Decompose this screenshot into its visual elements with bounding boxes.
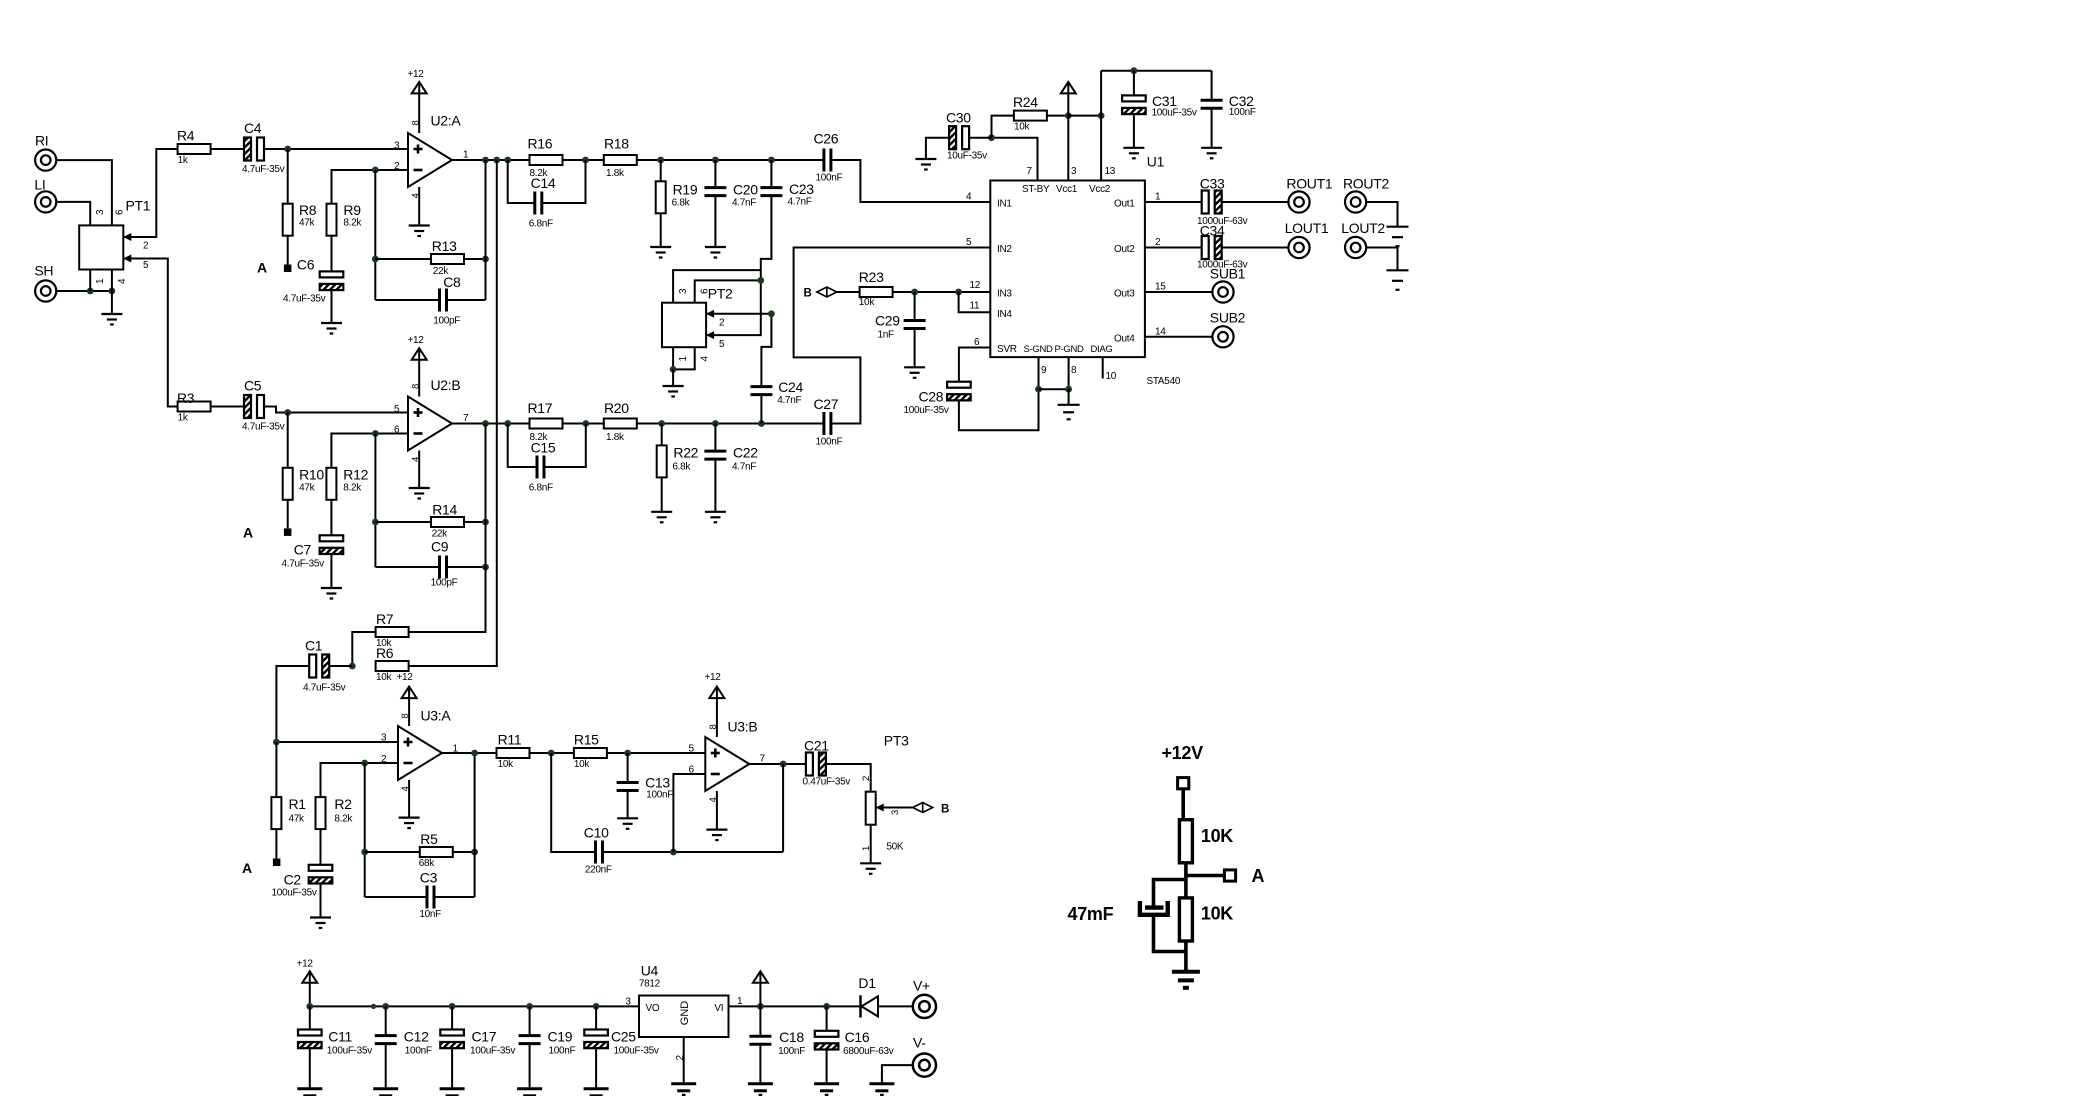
svg-text:C9: C9 [431, 539, 449, 555]
wire R22 top lead [661, 424, 663, 446]
wire R22 to ground [661, 477, 663, 511]
ground below C22 [705, 512, 726, 523]
wire C32 to ground [1211, 108, 1213, 147]
power +12 at U1 [1061, 82, 1076, 181]
svg-text:A: A [242, 860, 252, 876]
resistor R11 [497, 732, 530, 771]
wire U3:A output [442, 752, 497, 754]
wire C18 to ground [759, 1044, 761, 1084]
svg-text:1k: 1k [178, 155, 189, 166]
node B-channel input junction [284, 409, 291, 416]
wire SH to PT1 pins 1,4 [56, 290, 112, 292]
wire S-GND stem [1038, 357, 1040, 389]
svg-text:ROUT2: ROUT2 [1343, 176, 1389, 192]
wire C2 to ground [320, 884, 322, 917]
svg-text:C4: C4 [244, 120, 262, 136]
svg-text:A: A [1252, 866, 1265, 886]
svg-text:9: 9 [1041, 365, 1047, 376]
svg-text:R11: R11 [498, 732, 522, 748]
wire C17 to ground [451, 1048, 453, 1088]
svg-text:R5: R5 [420, 831, 438, 847]
wire IN4 jog [959, 292, 991, 312]
resistor R12 [326, 466, 368, 500]
svg-text:12: 12 [970, 280, 981, 291]
wire C5 to U2:B +input [264, 407, 408, 413]
svg-text:8.2k: 8.2k [343, 218, 362, 229]
svg-text:1.8k: 1.8k [606, 432, 625, 443]
node U3:B -in loop junction [670, 849, 677, 856]
svg-text:C1: C1 [305, 638, 323, 654]
wire 10K to node A [1186, 863, 1225, 898]
svg-text:R18: R18 [604, 136, 629, 152]
resistor R19 [656, 181, 698, 213]
wire C30 to ground [926, 138, 949, 159]
svg-text:A: A [243, 525, 253, 541]
wire PT1 pin1 stem [90, 270, 106, 292]
svg-text:100uF-35v: 100uF-35v [327, 1046, 372, 1057]
wire R7 left to C1 node [352, 632, 375, 666]
capacitor C24 [750, 379, 803, 406]
svg-text:C23: C23 [789, 181, 814, 197]
op-amp U2:B [394, 377, 469, 462]
node S-GND junction [1035, 386, 1042, 393]
wire U2:B output [452, 423, 530, 425]
power +12 at U3:B [705, 672, 725, 737]
svg-text:R1: R1 [289, 796, 307, 812]
svg-text:10K: 10K [1201, 826, 1233, 846]
svg-text:1k: 1k [178, 413, 189, 424]
ground below C32 [1201, 148, 1222, 159]
svg-text:RI: RI [35, 133, 48, 149]
wire C11 to ground [309, 1048, 311, 1088]
wire R3 to C5 [211, 406, 245, 408]
svg-text:100nF: 100nF [816, 437, 843, 448]
wire R9 to U2:A -input [332, 170, 409, 204]
wire Vcc1 to Vcc2 rail [1068, 115, 1101, 117]
svg-text:5: 5 [394, 404, 400, 415]
node U2:A out junction 1 [482, 157, 489, 164]
node U3:A out junction [471, 750, 478, 757]
svg-text:PT1: PT1 [126, 197, 151, 213]
svg-text:0.47uF-35v: 0.47uF-35v [803, 777, 851, 788]
ground below C13 [617, 818, 638, 829]
ground below P-GND [1058, 405, 1080, 420]
capacitor C22 [704, 445, 758, 473]
node PT2 pin2 junction [768, 310, 775, 317]
svg-text:14: 14 [1155, 326, 1166, 337]
wire C3 right lead [434, 896, 475, 898]
svg-text:IN1: IN1 [997, 199, 1012, 210]
svg-text:10k: 10k [498, 759, 515, 770]
svg-text:+12V: +12V [1162, 743, 1204, 763]
wire C29 top lead [914, 292, 916, 321]
connector V+ [913, 978, 936, 1019]
svg-text:PT3: PT3 [884, 733, 909, 749]
wire C19 to ground [529, 1043, 531, 1088]
capacitor C33 [1197, 176, 1248, 228]
svg-text:C14: C14 [531, 175, 556, 191]
resistor R10 [283, 466, 325, 500]
capacitor C11 [298, 1029, 372, 1057]
svg-text:3: 3 [890, 810, 901, 815]
svg-text:C7: C7 [294, 542, 312, 558]
wire R15 to U3:B +input [607, 752, 705, 754]
wire R6 right to U2:A out [409, 160, 497, 666]
potentiometer PT2 [662, 286, 733, 362]
svg-text:+12: +12 [408, 335, 425, 346]
node C9 right junction [482, 564, 489, 571]
net B marker at R23 [804, 287, 837, 300]
node C22 junction [712, 420, 719, 427]
svg-text:3: 3 [678, 288, 689, 294]
wire PT1 pin2 to R4 [123, 149, 177, 252]
wire V- to ground [882, 1065, 913, 1083]
ground below C16 [814, 1084, 839, 1096]
wire R1 to node A [275, 829, 277, 858]
svg-text:C17: C17 [472, 1029, 497, 1045]
wire PT2 pin1 stem [672, 347, 674, 369]
ground at LOUT2 [1387, 270, 1409, 290]
svg-text:6.8k: 6.8k [672, 198, 691, 209]
svg-text:GND: GND [679, 1001, 691, 1026]
wire C25 to ground [595, 1048, 597, 1088]
ground below C18 [748, 1084, 773, 1096]
wire C18 top lead [759, 1006, 761, 1036]
svg-text:6: 6 [700, 288, 711, 294]
wire PT3 bottom to ground [861, 825, 872, 863]
wire R12 to C7 [330, 500, 332, 536]
svg-text:1.8k: 1.8k [606, 168, 625, 179]
wire PT2 pin5 arrow [706, 331, 725, 350]
node Vcc1 junction [1065, 112, 1072, 119]
svg-text:10: 10 [1106, 371, 1117, 382]
svg-text:8.2k: 8.2k [334, 814, 353, 825]
svg-text:C5: C5 [244, 378, 262, 394]
capacitor C10 [584, 825, 612, 876]
svg-text:6: 6 [974, 337, 980, 348]
wire PT2 pin2 [706, 310, 771, 329]
svg-text:U2:A: U2:A [431, 113, 462, 129]
capacitor C28 [904, 382, 971, 416]
wire C22 to ground [714, 459, 716, 511]
svg-text:C33: C33 [1200, 176, 1225, 192]
ground below C11 [297, 1089, 322, 1096]
node +12/C11 junction [306, 1003, 313, 1010]
resistor R5 [419, 831, 453, 869]
wire feedback vertical left [374, 170, 376, 300]
svg-text:R17: R17 [528, 400, 553, 416]
wire junction to R8 [287, 149, 289, 204]
wire C10 loop left [551, 753, 595, 852]
svg-text:B: B [941, 804, 949, 816]
svg-text:SVR: SVR [997, 344, 1017, 355]
svg-text:4: 4 [117, 278, 128, 284]
capacitor C15 [529, 440, 556, 494]
ground U3:B pin4 [706, 791, 727, 840]
capacitor C1 [303, 638, 346, 694]
resistor R3 [177, 390, 211, 424]
svg-text:R12: R12 [343, 466, 368, 482]
svg-text:C30: C30 [946, 110, 971, 126]
ground below PT2 [663, 386, 684, 397]
wire C33 to ROUT1 [1222, 201, 1289, 203]
svg-text:Out2: Out2 [1114, 244, 1135, 255]
capacitor C7 [282, 535, 344, 569]
svg-text:2: 2 [143, 241, 149, 252]
wire Out2 to C34 [1145, 247, 1202, 249]
wire DIAG stub [1102, 357, 1104, 378]
svg-text:C24: C24 [778, 379, 803, 395]
ground below PT1 [101, 291, 122, 325]
wire R4 to C4 [211, 148, 245, 150]
svg-text:100uF-35v: 100uF-35v [614, 1046, 659, 1057]
connector LOUT1 [1285, 220, 1329, 258]
node PT2 pin6 junction [757, 277, 764, 284]
connector V- [913, 1035, 936, 1077]
wire C12 to ground [385, 1043, 387, 1088]
ground below C31 [1123, 148, 1144, 159]
svg-text:100uF-35v: 100uF-35v [904, 405, 949, 416]
svg-text:1: 1 [1155, 192, 1161, 203]
resistor 10K upper [1179, 820, 1233, 863]
svg-text:100nF: 100nF [405, 1046, 432, 1057]
power +12 at U3:A [397, 672, 417, 726]
wire 47mF to ground rail [1154, 915, 1186, 952]
wire C8 left lead [375, 299, 439, 301]
svg-text:U1: U1 [1147, 154, 1165, 170]
wire R18 to C26 [637, 159, 824, 161]
wire C8 right lead [447, 299, 486, 301]
wire SVR to C28 [959, 348, 990, 382]
svg-text:6.8nF: 6.8nF [529, 219, 553, 230]
svg-text:5: 5 [143, 260, 149, 271]
node C16 junction [823, 1003, 830, 1010]
svg-text:LOUT2: LOUT2 [1341, 220, 1385, 236]
svg-text:1nF: 1nF [878, 330, 895, 341]
svg-text:C6: C6 [297, 257, 315, 273]
wire R5 right lead [453, 851, 475, 853]
svg-text:PT2: PT2 [708, 286, 733, 302]
wire P-GND to ground [1068, 389, 1070, 404]
svg-text:5: 5 [689, 744, 695, 755]
svg-text:220nF: 220nF [585, 865, 612, 876]
capacitor C8 [433, 274, 461, 327]
svg-text:4.7nF: 4.7nF [732, 198, 756, 209]
node U2:A feedback junction [372, 167, 379, 174]
svg-text:6: 6 [689, 765, 695, 776]
op-amp U3:A [381, 708, 459, 792]
node U2:A out junction 2 [493, 157, 500, 164]
node R13 right junction [482, 256, 489, 263]
terminal pad A [1224, 866, 1264, 886]
svg-text:5: 5 [966, 237, 972, 248]
resistor R13 [431, 238, 464, 277]
svg-text:15: 15 [1155, 282, 1166, 293]
svg-text:LI: LI [34, 177, 45, 193]
svg-text:C11: C11 [328, 1029, 352, 1045]
svg-text:2: 2 [861, 776, 872, 781]
capacitor C18 [749, 1029, 805, 1057]
wire PT2 pin3 [673, 270, 761, 303]
svg-text:100nF: 100nF [778, 1046, 805, 1057]
wire R13 left lead [375, 258, 431, 260]
svg-text:R13: R13 [432, 238, 457, 254]
ground below C6 [321, 323, 342, 334]
capacitor C23 [760, 181, 814, 208]
svg-text:100nF: 100nF [816, 173, 843, 184]
svg-text:U4: U4 [641, 963, 659, 979]
svg-text:R8: R8 [299, 202, 317, 218]
node A marker (channel B bias) [243, 525, 291, 541]
wire R24 left lead [992, 116, 1014, 138]
wire C9 right lead [447, 566, 486, 568]
wire feedback vertical left B [374, 434, 376, 568]
wire Out1 to C33 [1145, 201, 1202, 203]
wire C13 to ground [627, 791, 629, 819]
connector ROUT2 [1343, 176, 1389, 213]
svg-text:4.7uF-35v: 4.7uF-35v [242, 164, 285, 175]
svg-text:V-: V- [913, 1035, 926, 1051]
capacitor C25 [584, 1029, 659, 1057]
wire R8 to node A [287, 236, 289, 265]
wire C15 left loop [508, 424, 537, 468]
svg-text:DIAG: DIAG [1091, 344, 1113, 355]
node C31 junction [1131, 67, 1138, 74]
svg-text:U3:A: U3:A [421, 708, 452, 724]
wire PT1 pin4 stem [112, 270, 128, 292]
svg-text:ROUT1: ROUT1 [1286, 176, 1332, 192]
wire R24 right lead [1047, 115, 1068, 117]
svg-text:2: 2 [394, 161, 400, 172]
svg-text:U3:B: U3:B [728, 719, 758, 735]
svg-text:R7: R7 [376, 611, 394, 627]
capacitor C29 [875, 313, 926, 341]
svg-text:8: 8 [1071, 365, 1077, 376]
svg-text:4: 4 [966, 192, 972, 203]
svg-text:C3: C3 [420, 870, 438, 886]
wire U3:B out to C10 rail [782, 764, 784, 852]
resistor R23 [859, 269, 893, 308]
capacitor C21 [803, 738, 851, 788]
connector ROUT1 [1286, 176, 1332, 213]
svg-text:C18: C18 [779, 1029, 804, 1045]
capacitor C9 [431, 539, 458, 589]
svg-text:R24: R24 [1013, 94, 1038, 110]
svg-text:ST-BY: ST-BY [1022, 184, 1050, 195]
node U2:B feedback junction [372, 430, 379, 437]
capacitor C26 [814, 131, 843, 184]
ground below C20 [705, 247, 726, 258]
wire LOUT2 to ground [1366, 248, 1397, 271]
svg-text:6.8k: 6.8k [672, 462, 691, 473]
capacitor C14 [529, 175, 556, 230]
capacitor 47mF [1068, 901, 1168, 924]
svg-text:C16: C16 [845, 1029, 870, 1045]
svg-text:100uF-35v: 100uF-35v [470, 1046, 515, 1057]
svg-text:R15: R15 [574, 732, 599, 748]
svg-text:Vcc1: Vcc1 [1056, 184, 1078, 195]
wire R14 right lead [464, 521, 486, 523]
capacitor C12 [375, 1029, 432, 1057]
node C20 junction [712, 157, 719, 164]
svg-text:C21: C21 [804, 738, 829, 754]
resistor R22 [657, 445, 699, 478]
svg-text:10k: 10k [574, 759, 591, 770]
capacitor C20 [704, 182, 758, 209]
svg-text:C26: C26 [814, 131, 839, 147]
svg-text:4.7nF: 4.7nF [732, 462, 756, 473]
svg-text:+12: +12 [297, 959, 314, 970]
wire R2 to U3:A -input [321, 763, 399, 797]
node R16/R18 junction [582, 157, 589, 164]
node IN4 junction [955, 289, 962, 296]
wire C27 to IC IN2 [794, 248, 991, 424]
svg-text:C15: C15 [531, 440, 556, 456]
wire C23 top lead [770, 160, 772, 188]
wire C6 to ground [331, 290, 333, 323]
capacitor C19 [519, 1029, 576, 1057]
svg-text:C2: C2 [284, 872, 302, 888]
label STA540 [1147, 376, 1181, 387]
node U3:A -in junction [361, 760, 368, 767]
svg-text:2: 2 [719, 318, 725, 329]
node C23 junction [768, 157, 775, 164]
wire U4 VI rail [729, 1005, 860, 1007]
wire C28 to S-GND [959, 389, 1039, 430]
capacitor C17 [440, 1029, 515, 1057]
ground U3:A pin4 [399, 780, 420, 828]
ground below C30 [915, 159, 936, 170]
svg-text:R19: R19 [673, 182, 698, 198]
svg-text:C10: C10 [584, 825, 609, 841]
wire C14 left loop [508, 160, 535, 203]
ground below R22 [651, 512, 672, 523]
capacitor C34 [1197, 223, 1248, 271]
svg-text:C34: C34 [1200, 223, 1225, 239]
svg-text:C12: C12 [404, 1029, 429, 1045]
node C19 junction [526, 1003, 533, 1010]
resistor R24 [1013, 94, 1047, 133]
node C24 junction [758, 420, 765, 427]
svg-text:D1: D1 [858, 975, 876, 991]
resistor R14 [431, 501, 464, 539]
resistor R15 [574, 732, 607, 771]
node C25 junction [593, 1003, 600, 1010]
wire PT2 pin4 stem [673, 347, 695, 369]
node U2:B out junction 1 [482, 420, 489, 427]
svg-text:8.2k: 8.2k [343, 483, 362, 494]
svg-text:6: 6 [115, 209, 126, 215]
connector SH [34, 263, 56, 302]
svg-text:10uF-35v: 10uF-35v [947, 151, 987, 162]
svg-text:47mF: 47mF [1068, 904, 1114, 924]
node R13 left junction [372, 256, 379, 263]
wire PT1 pin5 to R3 [123, 255, 177, 407]
svg-text:100nF: 100nF [1229, 107, 1256, 118]
wire C31 to ground [1133, 114, 1135, 147]
svg-text:6800uF-63v: 6800uF-63v [843, 1046, 894, 1057]
svg-text:6: 6 [394, 425, 400, 436]
wire C23 to PT2 [706, 196, 771, 336]
wire U4 GND to ground [675, 1037, 686, 1084]
wire C25 top lead [595, 1006, 597, 1029]
wire R2 to C2 [320, 829, 322, 865]
wire C16 top lead [826, 1006, 828, 1031]
wire U2:A out to feedback [485, 160, 487, 300]
node R14 right junction [482, 519, 489, 526]
node U2:A out junction 3 [504, 157, 511, 164]
svg-text:7: 7 [463, 413, 469, 424]
